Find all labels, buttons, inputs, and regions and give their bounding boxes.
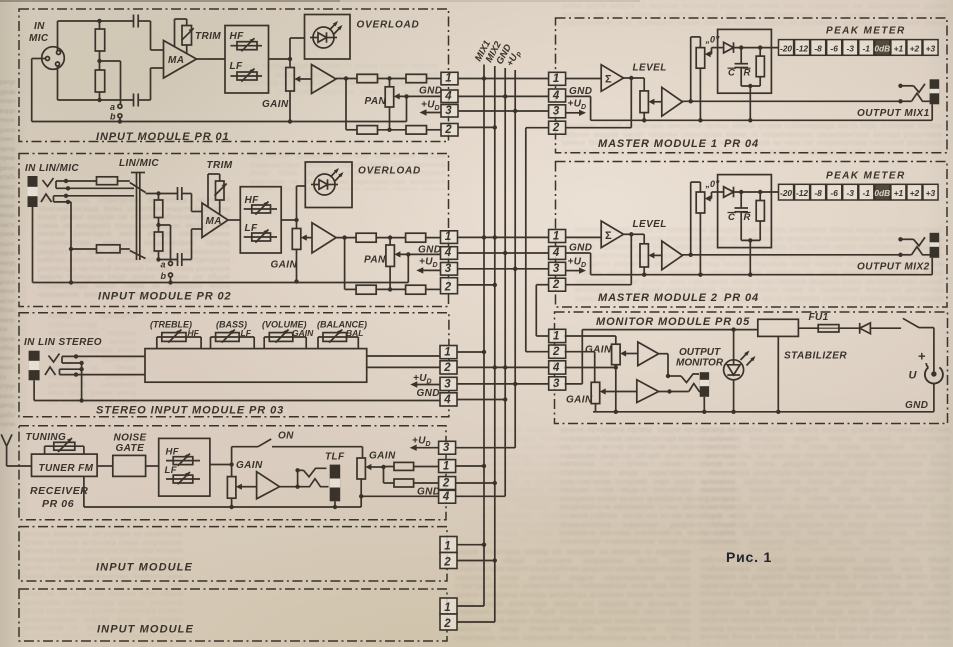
wire master2 pin2 chain xyxy=(536,284,548,286)
svg-text:PAN: PAN xyxy=(365,96,387,107)
svg-text:C: C xyxy=(728,212,735,223)
svg-text:HF: HF xyxy=(230,31,245,42)
svg-text:LEVEL: LEVEL xyxy=(633,219,667,230)
detector diode master 1 xyxy=(724,42,734,53)
wire row3 pin4 GND xyxy=(457,399,505,401)
LED monitor xyxy=(724,360,744,380)
gain pot GAIN xyxy=(289,59,291,68)
pin block monitor xyxy=(549,329,566,342)
pin2 feedback master 1 xyxy=(566,127,632,129)
monitor module border xyxy=(555,312,948,424)
wire node A to C1 xyxy=(146,193,178,195)
svg-text:OUTPUT: OUTPUT xyxy=(679,347,721,358)
receiver PR 06 border xyxy=(19,426,446,520)
svg-text:INPUT MODULE PR 02: INPUT MODULE PR 02 xyxy=(98,291,232,303)
wire row1 MIX1 xyxy=(458,78,549,80)
wire tone out PR06 xyxy=(210,464,232,466)
svg-text:PEAK METER: PEAK METER xyxy=(826,170,906,181)
pin block PR06 xyxy=(439,441,456,454)
detector diode master 2 xyxy=(724,187,734,198)
gnd path master 2 xyxy=(566,252,591,254)
node amp out PR02 xyxy=(342,235,346,239)
pan wiper PR02 xyxy=(400,253,441,255)
tuner box TUNER FM xyxy=(32,454,98,476)
+Up arrow PR03 xyxy=(415,384,440,386)
wire row2 GND xyxy=(458,252,549,254)
switch LIN/MIC upper xyxy=(130,183,146,193)
svg-text:4: 4 xyxy=(552,362,560,374)
svg-text:4: 4 xyxy=(552,247,560,259)
svg-text:3: 3 xyxy=(445,263,452,275)
pin2 feedback master 2 xyxy=(566,284,632,286)
wire tone box to node xyxy=(269,58,291,60)
svg-text:GAIN: GAIN xyxy=(369,451,396,462)
svg-text:GATE: GATE xyxy=(116,443,145,454)
svg-text:+3: +3 xyxy=(926,43,936,53)
svg-text:-3: -3 xyxy=(846,43,854,53)
svg-text:-12: -12 xyxy=(796,188,808,198)
svg-text:+U: +U xyxy=(568,99,582,110)
jack contact lower master 2 xyxy=(901,254,912,256)
contact a PR02 xyxy=(169,262,173,266)
pot (BALANCE) stubs xyxy=(317,337,319,349)
node bottom PR02 xyxy=(156,257,160,261)
ground rail PR03 xyxy=(33,380,35,400)
buffer amp PR02 xyxy=(312,223,336,253)
wire to overload box xyxy=(289,38,291,59)
contact a xyxy=(118,104,122,108)
wire monitor pin1 from chain xyxy=(536,335,548,337)
svg-text:D: D xyxy=(433,262,438,269)
wire C1 to MA input1 xyxy=(191,194,193,212)
wire pin1 to sigma master 1 xyxy=(566,78,602,80)
pan wiper to pin4 wire xyxy=(399,95,441,97)
svg-text:TLF: TLF xyxy=(325,452,345,463)
output jack master 1 xyxy=(930,79,940,104)
svg-text:-6: -6 xyxy=(830,43,838,53)
op-amp MA PR02 xyxy=(202,203,228,238)
ground rail PR06 xyxy=(83,476,85,507)
svg-text:MIC: MIC xyxy=(29,33,49,44)
svg-text:GAIN: GAIN xyxy=(566,395,593,406)
phone jack TLF xyxy=(330,465,341,502)
svg-text:GAIN: GAIN xyxy=(585,345,612,356)
wire to overload PR02 xyxy=(296,186,298,220)
wire tone to node PR02 xyxy=(281,219,296,221)
LF filter xyxy=(231,75,263,77)
svg-text:-3: -3 xyxy=(846,188,854,198)
gain wiper PR02 xyxy=(306,237,312,239)
detector bottom wire master 2 xyxy=(741,239,760,241)
svg-text:HF: HF xyxy=(188,328,200,338)
svg-text:GND: GND xyxy=(417,388,440,399)
input module PR 02 border xyxy=(19,154,449,307)
node gain/overload junction xyxy=(288,57,292,61)
wire stabilizer gnd xyxy=(777,336,779,411)
bus +Up xyxy=(514,70,516,448)
svg-text:OUTPUT MIX1: OUTPUT MIX1 xyxy=(857,108,930,119)
jack contact upper master 1 xyxy=(898,84,902,88)
summing amp master 1 xyxy=(601,65,623,92)
svg-text:TUNER FM: TUNER FM xyxy=(39,463,94,474)
wire bottom to C2 xyxy=(100,99,134,101)
bus label MIX2 xyxy=(484,39,504,64)
wire battery to rail xyxy=(933,383,935,412)
svg-text:PR 04: PR 04 xyxy=(724,292,759,304)
svg-text:1: 1 xyxy=(553,330,559,342)
jack contact upper master 2 xyxy=(898,237,902,241)
resistor R2 xyxy=(99,61,101,70)
svg-text:OUTPUT MIX2: OUTPUT MIX2 xyxy=(857,261,930,272)
svg-text:GND: GND xyxy=(419,86,442,97)
wire row2 +Up xyxy=(458,268,549,270)
node R1-R2 PR02 xyxy=(156,223,160,227)
power diode monitor xyxy=(839,327,860,329)
svg-text:GAIN: GAIN xyxy=(271,260,298,271)
wire spare5 pin2 xyxy=(457,560,495,562)
pot (BASS) stubs xyxy=(210,337,212,349)
svg-text:TUNING: TUNING xyxy=(26,432,67,443)
+Up arrow master 2 xyxy=(566,270,581,272)
svg-text:MONITOR: MONITOR xyxy=(676,358,724,369)
node A PR02 xyxy=(156,191,160,195)
wire row1 GND xyxy=(458,95,549,97)
pot (VOLUME) xyxy=(269,333,293,342)
svg-text:-20: -20 xyxy=(780,43,792,53)
tone box PR02 xyxy=(240,187,281,253)
node gain bottom PR02 xyxy=(294,279,298,283)
bottom resistor row xyxy=(346,129,357,131)
node pan top xyxy=(387,76,391,80)
node gain/overload PR02 xyxy=(294,218,298,222)
svg-text:1: 1 xyxy=(444,347,450,359)
stereo jack socket xyxy=(28,176,38,207)
jack contact lower PR03 xyxy=(45,367,56,375)
wire row2 MIX1 xyxy=(458,236,549,238)
wire sigma out master 1 xyxy=(624,77,632,79)
pin block master 2 xyxy=(549,230,566,243)
svg-text:b: b xyxy=(161,271,167,281)
capacitor C2 PR02 xyxy=(177,253,179,266)
svg-text:PR 04: PR 04 xyxy=(724,138,759,150)
svg-text:2: 2 xyxy=(552,279,560,291)
node amp out xyxy=(344,76,348,80)
overload indicator box xyxy=(305,15,351,60)
+Up arrow master 1 xyxy=(566,112,581,114)
capacitor C1 PR02 xyxy=(177,187,179,200)
summing amp master 2 xyxy=(601,221,623,248)
node R1-R2 junction xyxy=(97,59,101,63)
pot (TREBLE) xyxy=(162,333,186,342)
bus label MIX1 xyxy=(473,39,493,64)
svg-text:NOISE: NOISE xyxy=(114,433,147,444)
svg-text:PAN: PAN xyxy=(364,255,386,266)
wire monitor pin3 to top rail xyxy=(565,383,583,385)
figure caption xyxy=(726,549,772,565)
wire row3 pin2 to monitor pin4 xyxy=(457,366,549,368)
bus GND xyxy=(504,68,506,496)
peak meter cells master 2 xyxy=(779,184,794,200)
svg-text:+U: +U xyxy=(421,100,435,111)
wire spare5 pin1 xyxy=(457,544,484,546)
contact b xyxy=(118,114,122,118)
svg-text:1: 1 xyxy=(553,73,559,85)
svg-text:LIN/MIC: LIN/MIC xyxy=(119,158,159,169)
svg-text:GND: GND xyxy=(569,86,592,97)
svg-text:1: 1 xyxy=(444,602,450,614)
svg-text:0dB: 0dB xyxy=(874,43,890,53)
resistor to pin1 b xyxy=(406,74,427,82)
wire amp out PR06 xyxy=(280,486,304,488)
master module 2 border xyxy=(556,162,948,308)
wire node down to bottom row xyxy=(345,79,347,130)
trim pot TRIM xyxy=(182,26,192,46)
svg-text:INPUT MODULE: INPUT MODULE xyxy=(96,562,193,574)
zero wiper master 1 xyxy=(710,53,711,55)
wire amp out xyxy=(336,78,357,80)
svg-text:GAIN: GAIN xyxy=(236,460,263,471)
gain pot 2 PR06 xyxy=(362,447,364,458)
gain pot upper monitor xyxy=(612,344,621,365)
svg-text:D: D xyxy=(581,104,586,111)
svg-text:2: 2 xyxy=(443,362,451,374)
svg-text:D: D xyxy=(435,105,440,112)
phone contact upper xyxy=(304,468,327,477)
wire row1 +Up xyxy=(458,110,549,112)
zero wiper master 2 xyxy=(710,198,711,200)
svg-text:2: 2 xyxy=(444,124,452,136)
main amp master 1 xyxy=(662,87,683,116)
bus label +Up xyxy=(505,48,524,69)
svg-text:3: 3 xyxy=(444,378,451,390)
stereo jack socket PR03 xyxy=(29,351,40,381)
resistor R1 xyxy=(99,21,101,29)
wire bottom node to C2 xyxy=(159,259,178,261)
wire box out1 PR03 xyxy=(367,355,440,357)
gain1 wiper xyxy=(241,486,256,488)
resistor series upper xyxy=(97,177,118,185)
node gain bottom on rail xyxy=(288,119,292,123)
svg-text:C: C xyxy=(728,68,735,79)
gain pot PR02 xyxy=(296,220,298,229)
wire row3 pin3 to monitor pin3 xyxy=(457,383,549,385)
svg-text:TRIM: TRIM xyxy=(195,31,221,42)
svg-text:INPUT MODULE PR 01: INPUT MODULE PR 01 xyxy=(96,131,230,143)
svg-text:IN LIN STEREO: IN LIN STEREO xyxy=(24,337,102,348)
svg-text:+U: +U xyxy=(412,436,426,447)
svg-text:3: 3 xyxy=(443,442,450,454)
wire LED monitor xyxy=(733,330,735,360)
svg-text:IN: IN xyxy=(34,21,45,32)
input module PR 01 border xyxy=(19,9,449,142)
svg-text:3: 3 xyxy=(553,106,560,118)
svg-text:LEVEL: LEVEL xyxy=(633,63,667,74)
wire box out2 PR03 xyxy=(367,366,440,368)
wire monitor pin2 to gain2 xyxy=(565,351,595,353)
svg-text:BAL: BAL xyxy=(346,328,363,338)
svg-text:U: U xyxy=(909,370,918,382)
switch ON xyxy=(258,439,271,447)
main amp master 2 xyxy=(662,241,683,270)
phone contact lower xyxy=(304,479,329,487)
peak detector box master 1 xyxy=(718,29,772,93)
svg-text:OVERLOAD: OVERLOAD xyxy=(358,166,421,177)
pan pot PR02 xyxy=(389,238,391,245)
svg-text:4: 4 xyxy=(442,491,450,503)
contact wires PR03 xyxy=(62,355,145,357)
svg-text:2: 2 xyxy=(444,282,452,294)
svg-text:1: 1 xyxy=(445,73,451,85)
wire amp out PR02 xyxy=(336,237,356,239)
resistor series lower xyxy=(97,245,121,253)
stabilizer box xyxy=(758,319,799,336)
svg-text:b: b xyxy=(110,112,116,122)
LF filter PR02 xyxy=(244,236,277,238)
wire junction to contact a PR02 xyxy=(159,224,171,226)
svg-text:2: 2 xyxy=(552,122,560,134)
svg-text:+: + xyxy=(918,349,926,364)
wire amp out rail master 1 xyxy=(683,100,901,102)
zero pot master 2 xyxy=(696,192,705,213)
wire amp1 to contact xyxy=(659,353,668,355)
wire spare6 pin2 MIX2 end xyxy=(457,621,495,623)
svg-text:INPUT MODULE: INPUT MODULE xyxy=(97,624,194,636)
wire stabilizer to fuse xyxy=(798,327,818,329)
wire contact b to ground rail xyxy=(119,118,121,122)
wire to zero pot master 2 xyxy=(690,182,692,255)
ground rail PR02 xyxy=(33,282,409,284)
pot (BALANCE) xyxy=(323,333,347,342)
bus label GND xyxy=(494,42,514,66)
input module 6 border xyxy=(19,589,447,641)
svg-text:-1: -1 xyxy=(863,188,871,198)
wire MA out PR02 xyxy=(228,219,240,221)
wire node down PR02 xyxy=(344,238,346,290)
monitor amp upper xyxy=(638,342,659,366)
svg-text:a: a xyxy=(161,260,166,270)
capacitor C1 xyxy=(133,15,135,28)
resistor R2 PR02 xyxy=(158,225,160,232)
master module 1 border xyxy=(556,18,948,153)
wire lower row from vertical xyxy=(71,248,97,250)
switch LIN/MIC lower xyxy=(130,251,146,259)
svg-text:-20: -20 xyxy=(780,188,792,198)
svg-text:GND: GND xyxy=(418,245,441,256)
bus MIX2 xyxy=(494,66,496,622)
wire to zero pot master 1 xyxy=(690,37,692,101)
svg-text:TRIM: TRIM xyxy=(207,160,233,171)
node gain1 PR06 xyxy=(229,462,233,466)
wire contact4 down to rail xyxy=(70,202,72,283)
node top junction xyxy=(97,19,101,23)
svg-text:4: 4 xyxy=(443,394,451,406)
capacitor C master 1 xyxy=(740,48,742,64)
wire C2 to MA input2 xyxy=(191,229,193,260)
buffer amp xyxy=(312,65,337,94)
wire contacts to ground PR03 xyxy=(81,363,83,401)
pin block module 6 xyxy=(440,598,457,614)
wire gate to tone xyxy=(146,465,159,467)
pin block PR02 xyxy=(441,231,458,244)
bus MIX1 xyxy=(483,65,485,607)
pan pot PAN xyxy=(389,79,391,87)
gain2 wiper to resistors xyxy=(371,466,384,468)
svg-text:MA: MA xyxy=(168,55,184,66)
wire C1 to MA input 1 xyxy=(150,21,152,50)
pot (TREBLE) stubs xyxy=(156,337,158,349)
monitor contact lower xyxy=(689,384,702,392)
wire module1 pin2 to MIX2 xyxy=(458,126,495,128)
svg-text:PR 06: PR 06 xyxy=(42,498,74,510)
overload box PR02 xyxy=(305,162,352,208)
peak meter cells master 1 xyxy=(779,40,794,56)
wire wiper node down xyxy=(383,467,385,483)
jack contact upper PR02 xyxy=(43,178,54,187)
svg-text:GAIN: GAIN xyxy=(262,99,289,110)
svg-text:D: D xyxy=(581,262,586,269)
wire amp out rail master 2 xyxy=(683,254,901,256)
svg-text:2: 2 xyxy=(442,477,450,489)
battery U xyxy=(925,367,943,383)
monitor phone jack xyxy=(700,372,709,397)
svg-text:MASTER MODULE 2: MASTER MODULE 2 xyxy=(598,292,718,304)
wire rx pin4 GND end xyxy=(456,495,506,497)
contact wires PR02 xyxy=(56,180,97,182)
svg-text:RECEIVER: RECEIVER xyxy=(30,485,88,497)
noise gate box xyxy=(113,455,146,476)
svg-text:R: R xyxy=(744,68,751,79)
svg-text:1: 1 xyxy=(553,230,559,242)
+Up arrow PR06 xyxy=(415,447,439,449)
pot (VOLUME) stubs xyxy=(263,337,265,349)
resistor to pin1 PR06 xyxy=(384,466,395,468)
gain1 wiper monitor xyxy=(626,353,638,355)
tone box HF/LF xyxy=(225,26,269,94)
node bottom junction xyxy=(97,98,101,102)
resistor R1 PR02 xyxy=(158,194,160,201)
svg-text:0dB: 0dB xyxy=(874,188,890,198)
trim pot PR02 xyxy=(216,181,225,200)
HF filter PR06 xyxy=(166,460,200,462)
svg-text:+U: +U xyxy=(419,257,433,268)
wire rx pin3 +Up end xyxy=(456,447,516,449)
wire junction to contact a xyxy=(100,60,121,62)
resistor to pin2 PR06 xyxy=(384,482,395,484)
svg-text:IN LIN/MIC: IN LIN/MIC xyxy=(25,163,79,174)
svg-text:Σ: Σ xyxy=(605,74,612,86)
svg-text:4: 4 xyxy=(444,90,452,102)
op-amp MA xyxy=(164,41,197,79)
monitor contact upper xyxy=(681,374,699,383)
svg-text:1: 1 xyxy=(444,540,450,552)
svg-text:-8: -8 xyxy=(814,188,822,198)
svg-text:LF: LF xyxy=(241,328,252,338)
svg-text:R: R xyxy=(744,212,751,223)
svg-text:+U: +U xyxy=(568,256,582,267)
monitor ground rail xyxy=(593,411,934,413)
wire MA output xyxy=(197,58,226,60)
svg-text:2: 2 xyxy=(552,346,560,358)
svg-text:ON: ON xyxy=(278,431,294,442)
+Up arrow stub xyxy=(425,112,442,114)
+Up arrow PR02 xyxy=(421,269,440,271)
pin block PR01 xyxy=(441,72,458,85)
jack contact lower master 1 xyxy=(901,100,912,102)
svg-text:-8: -8 xyxy=(814,43,822,53)
wire master1 pin2 chain xyxy=(526,127,549,129)
wire tuner to gate xyxy=(97,465,113,467)
contact b PR02 xyxy=(169,273,173,277)
